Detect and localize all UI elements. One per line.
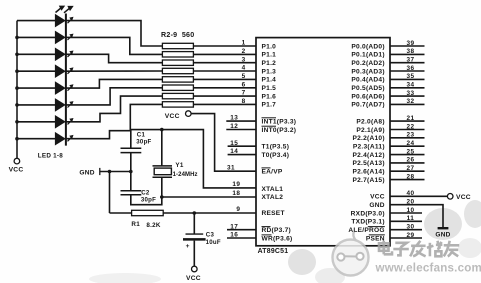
pin number 34 bbox=[406, 82, 414, 89]
svg-text:P1.4: P1.4 bbox=[262, 77, 277, 84]
pin number 11 bbox=[407, 215, 415, 222]
node bus junction 5 bbox=[15, 86, 19, 90]
svg-text:37: 37 bbox=[406, 57, 414, 64]
wire pin24 bbox=[390, 145, 425, 147]
power VCC left terminal bbox=[14, 158, 20, 164]
capacitor C1 bbox=[121, 148, 142, 152]
label 1-24MHz bbox=[173, 172, 198, 178]
pin label P2.3(A11) bbox=[353, 144, 385, 151]
power VCC mid terminal bbox=[186, 111, 192, 117]
svg-text:XTAL2: XTAL2 bbox=[262, 194, 284, 201]
pin label INT0(P3.2) bbox=[262, 126, 297, 134]
crystal Y1 bottom plate bbox=[153, 176, 173, 178]
svg-text:VCC: VCC bbox=[165, 113, 180, 120]
label C3 plus bbox=[186, 243, 190, 250]
pin number 14 bbox=[230, 148, 238, 155]
LED D5 bbox=[55, 81, 66, 95]
wire R9-pin8 bbox=[193, 103, 256, 105]
wire pin33 bbox=[390, 95, 425, 97]
pin number 39 bbox=[406, 40, 414, 47]
capacitor C3 plate1 bbox=[186, 233, 204, 235]
svg-text:20: 20 bbox=[406, 199, 414, 206]
pin label RXD(P3.0) bbox=[351, 210, 385, 217]
svg-text:+: + bbox=[186, 243, 190, 250]
wire pin34 bbox=[390, 87, 425, 89]
pin number 10 bbox=[406, 207, 414, 214]
svg-text:29: 29 bbox=[406, 232, 414, 239]
wire pin26 bbox=[390, 162, 425, 164]
pin number 27 bbox=[406, 165, 414, 172]
label C2 30pF bbox=[141, 196, 156, 203]
wire R6-pin5 bbox=[193, 78, 256, 80]
wire pin40 VCC bbox=[390, 195, 447, 197]
wire D1-R2 bbox=[66, 21, 162, 46]
pin label GND bbox=[369, 202, 384, 209]
pin label RD(P3.7) bbox=[262, 227, 291, 235]
svg-text:11: 11 bbox=[407, 215, 415, 222]
node crystal top junction bbox=[160, 128, 164, 132]
label LED 1-8 bbox=[38, 153, 63, 160]
capacitor C3 plate2 bbox=[183, 238, 206, 241]
pin number 17 bbox=[230, 223, 238, 230]
ground GND right symbol bbox=[438, 227, 449, 229]
pin number 12 bbox=[230, 123, 238, 130]
svg-text:25: 25 bbox=[406, 148, 414, 155]
svg-text:4: 4 bbox=[242, 65, 246, 72]
pin label P0.5(AD5) bbox=[351, 85, 384, 92]
pin number 30 bbox=[406, 224, 414, 231]
wire D3-R4 bbox=[66, 54, 162, 62]
resistor R6 bbox=[162, 77, 193, 82]
pin label T1(P3.5) bbox=[262, 144, 290, 151]
wire GND horizontal bbox=[100, 171, 131, 173]
svg-text:31: 31 bbox=[227, 164, 235, 171]
svg-text:VCC: VCC bbox=[370, 194, 385, 201]
svg-text:P1.5: P1.5 bbox=[262, 85, 277, 92]
LED D4 emission arrow bbox=[68, 67, 74, 73]
node bus junction 3 bbox=[15, 53, 19, 57]
wire XTAL1 net bbox=[131, 130, 256, 188]
node bus junction 7 bbox=[15, 120, 19, 124]
pin number 20 bbox=[406, 199, 414, 206]
wire crystal top lead bbox=[161, 130, 163, 166]
wire pin28 bbox=[390, 179, 425, 181]
wire LED7 anode bbox=[17, 121, 55, 123]
pin label P0.7(AD7) bbox=[351, 102, 384, 109]
wire GND-R1 vertical bbox=[109, 172, 111, 214]
pin label P0.6(AD6) bbox=[351, 93, 384, 100]
svg-text:GND: GND bbox=[369, 202, 384, 209]
label C3 bbox=[206, 232, 215, 239]
LED D2 emission arrow bbox=[68, 34, 74, 40]
pin label P2.2(A10) bbox=[352, 135, 384, 142]
label VCC right bbox=[456, 194, 471, 201]
pin label P1.3 bbox=[262, 68, 277, 75]
wire D4-R5 bbox=[66, 70, 162, 72]
power VCC right terminal bbox=[447, 194, 453, 200]
wire pin13 stub bbox=[226, 120, 256, 122]
svg-text:R2-9 560: R2-9 560 bbox=[161, 31, 194, 39]
pin number 23 bbox=[406, 132, 414, 139]
pin number 6 bbox=[242, 81, 246, 88]
pin label P2.7(A15) bbox=[352, 177, 384, 184]
wire LED8 anode bbox=[17, 138, 55, 140]
LED D7 bbox=[55, 115, 66, 129]
power VCC bottom terminal bbox=[192, 266, 198, 272]
pin number 22 bbox=[406, 123, 414, 130]
pin label P0.2(AD2) bbox=[351, 60, 384, 67]
wire pin17 stub bbox=[227, 229, 256, 231]
svg-text:P1.0: P1.0 bbox=[262, 43, 277, 50]
svg-text:VCC: VCC bbox=[186, 275, 201, 282]
wire pin21 bbox=[390, 120, 425, 122]
pin label P0.4(AD4) bbox=[351, 77, 384, 84]
svg-text:12: 12 bbox=[230, 123, 238, 130]
svg-text:P1.6: P1.6 bbox=[262, 93, 277, 100]
svg-text:P2.3(A11): P2.3(A11) bbox=[353, 144, 385, 151]
svg-text:T1(P3.5): T1(P3.5) bbox=[262, 144, 290, 151]
pin label P1.2 bbox=[262, 60, 277, 67]
wire R5-pin4 bbox=[193, 70, 256, 72]
pin number 31 bbox=[227, 164, 235, 171]
svg-text:P2.0(A8): P2.0(A8) bbox=[356, 118, 384, 125]
pin number 24 bbox=[406, 140, 414, 147]
svg-text:28: 28 bbox=[406, 173, 414, 180]
LED D8 bbox=[55, 132, 66, 146]
svg-text:3: 3 bbox=[242, 56, 246, 63]
pin number 18 bbox=[232, 190, 240, 197]
svg-text:P2.4(A12): P2.4(A12) bbox=[352, 152, 384, 159]
pin label P2.0(A8) bbox=[356, 118, 384, 125]
pin label P0.0(AD0) bbox=[351, 43, 384, 50]
svg-text:2: 2 bbox=[242, 48, 246, 55]
wire pin39 bbox=[390, 45, 425, 47]
svg-text:P1.3: P1.3 bbox=[262, 68, 277, 75]
wire LED3 anode bbox=[17, 53, 55, 55]
wire LED1 anode bbox=[17, 20, 55, 22]
wire pin12 stub bbox=[226, 129, 256, 131]
wire LED cathode column bbox=[65, 14, 67, 146]
label R2-9 560 bbox=[161, 31, 194, 39]
svg-text:P2.5(A13): P2.5(A13) bbox=[352, 160, 384, 167]
svg-text:P1.1: P1.1 bbox=[262, 52, 277, 59]
svg-text:GND: GND bbox=[435, 231, 450, 238]
svg-text:T0(P3.4): T0(P3.4) bbox=[262, 152, 290, 159]
label C2 bbox=[141, 189, 150, 196]
LED D3 bbox=[55, 48, 66, 62]
pin number 35 bbox=[406, 73, 414, 80]
pin number 1 bbox=[242, 40, 246, 47]
svg-text:27: 27 bbox=[406, 165, 414, 172]
crystal Y1 body bbox=[154, 168, 171, 175]
svg-text:38: 38 bbox=[406, 48, 414, 55]
svg-text:1: 1 bbox=[242, 40, 246, 47]
pin number 29 bbox=[406, 232, 414, 239]
svg-text:PSEN: PSEN bbox=[366, 235, 385, 242]
pin number 25 bbox=[406, 148, 414, 155]
svg-text:AT89C51: AT89C51 bbox=[258, 248, 289, 255]
pin number 16 bbox=[230, 232, 238, 239]
svg-text:40: 40 bbox=[406, 190, 414, 197]
svg-text:GND: GND bbox=[79, 170, 94, 177]
wire C3-VCC lead bbox=[193, 241, 195, 267]
pin label XTAL2 bbox=[262, 194, 284, 201]
svg-text:13: 13 bbox=[230, 115, 238, 122]
wire LED4 anode bbox=[17, 70, 55, 72]
svg-text:P0.4(AD4): P0.4(AD4) bbox=[351, 77, 384, 84]
svg-text:RESET: RESET bbox=[262, 210, 285, 217]
pin number 33 bbox=[406, 90, 414, 97]
svg-text:TXD(P3.1): TXD(P3.1) bbox=[351, 219, 384, 226]
pin label P2.6(A14) bbox=[352, 169, 384, 176]
svg-text:EA/VP: EA/VP bbox=[262, 169, 283, 176]
crystal Y1 top plate bbox=[153, 165, 173, 167]
wire LED5 anode bbox=[17, 87, 55, 89]
wire VCC bus vertical bbox=[16, 21, 18, 159]
node GND junction bbox=[108, 170, 112, 174]
wire pin23 bbox=[390, 137, 425, 139]
svg-text:P1.2: P1.2 bbox=[262, 60, 277, 67]
label Y1 bbox=[175, 162, 183, 169]
svg-text:www.elecfans.com: www.elecfans.com bbox=[375, 262, 481, 275]
svg-text:16: 16 bbox=[230, 232, 238, 239]
svg-text:5: 5 bbox=[242, 73, 246, 80]
pin label TXD(P3.1) bbox=[351, 219, 384, 226]
pin number 37 bbox=[406, 57, 414, 64]
svg-text:8.2K: 8.2K bbox=[146, 222, 161, 229]
svg-text:P0.2(AD2): P0.2(AD2) bbox=[351, 60, 384, 67]
pin number 2 bbox=[242, 48, 246, 55]
node crystal bottom junction bbox=[160, 195, 164, 199]
label AT89C51 bbox=[258, 248, 289, 255]
label R1 8.2K bbox=[146, 222, 161, 229]
label R1 bbox=[131, 221, 140, 228]
svg-text:P2.7(A15): P2.7(A15) bbox=[352, 177, 384, 184]
svg-text:P1.7: P1.7 bbox=[262, 102, 277, 109]
node bus junction 8 bbox=[15, 137, 19, 141]
svg-text:C3: C3 bbox=[206, 232, 215, 239]
pin label RESET bbox=[262, 210, 285, 217]
pin number 7 bbox=[242, 90, 246, 97]
pin number 5 bbox=[242, 73, 246, 80]
label VCC bottom bbox=[186, 275, 201, 282]
wire pin15 stub bbox=[228, 145, 256, 147]
svg-text:33: 33 bbox=[406, 90, 414, 97]
svg-text:21: 21 bbox=[406, 115, 414, 122]
label VCC left bbox=[9, 167, 24, 174]
pin label P1.0 bbox=[262, 43, 277, 50]
LED D7 emission arrow bbox=[68, 118, 74, 124]
ground GND tick bbox=[99, 168, 101, 175]
node C-string junction bbox=[129, 170, 133, 174]
wire pin36 bbox=[390, 70, 425, 72]
IC U1 AT89C51 box bbox=[256, 38, 390, 246]
node RESET junction bbox=[193, 211, 197, 215]
resistor R5 bbox=[162, 68, 193, 73]
label GND left bbox=[79, 170, 94, 177]
resistor R2 bbox=[162, 43, 193, 48]
node bus junction 4 bbox=[15, 69, 19, 73]
svg-text:C1: C1 bbox=[137, 132, 146, 139]
wire pin11 bbox=[390, 220, 422, 222]
svg-text:VCC: VCC bbox=[9, 167, 24, 174]
pin label VCC bbox=[370, 194, 385, 201]
wire LED2 anode bbox=[17, 36, 55, 38]
wire pin38 bbox=[390, 53, 425, 55]
pin number 36 bbox=[406, 65, 414, 72]
svg-text:32: 32 bbox=[406, 98, 414, 105]
svg-text:8: 8 bbox=[242, 98, 246, 105]
watermark url bbox=[375, 262, 481, 275]
svg-text:LED 1-8: LED 1-8 bbox=[38, 153, 63, 160]
resistor R1 bbox=[132, 210, 164, 215]
pin label XTAL1 bbox=[262, 186, 284, 193]
pin label P2.5(A13) bbox=[352, 160, 384, 167]
wire C1-GND bbox=[130, 153, 132, 172]
LED D1 bbox=[55, 14, 66, 28]
pin number 9 bbox=[236, 206, 240, 213]
svg-text:XTAL1: XTAL1 bbox=[262, 186, 284, 193]
pin number 13 bbox=[230, 115, 238, 122]
pin number 3 bbox=[242, 56, 246, 63]
wire crystal bottom lead bbox=[161, 177, 163, 197]
pin label PSEN bbox=[366, 235, 385, 242]
svg-text:P2.1(A9): P2.1(A9) bbox=[356, 127, 384, 134]
wire D8-R9 bbox=[66, 104, 162, 138]
svg-text:23: 23 bbox=[406, 132, 414, 139]
svg-text:P0.6(AD6): P0.6(AD6) bbox=[351, 93, 384, 100]
resistor R8 bbox=[162, 93, 193, 98]
svg-text:24: 24 bbox=[406, 140, 414, 147]
svg-text:39: 39 bbox=[406, 40, 414, 47]
pin label P0.1(AD1) bbox=[351, 52, 384, 59]
svg-text:17: 17 bbox=[230, 223, 238, 230]
svg-text:P0.1(AD1): P0.1(AD1) bbox=[351, 52, 384, 59]
pin label WR(P3.6) bbox=[262, 235, 293, 243]
wire pin27 bbox=[390, 170, 425, 172]
watermark logo bbox=[333, 232, 369, 276]
pin number 4 bbox=[242, 65, 246, 72]
svg-text:6: 6 bbox=[242, 81, 246, 88]
pin label P1.1 bbox=[262, 52, 277, 59]
pin label ALE/PROG bbox=[348, 227, 384, 234]
LED D6 bbox=[55, 98, 66, 112]
svg-text:RXD(P3.0): RXD(P3.0) bbox=[351, 210, 385, 217]
capacitor C2 bbox=[121, 191, 142, 195]
wire pin25 bbox=[390, 154, 425, 156]
wire pin35 bbox=[390, 78, 425, 80]
svg-text:INT0(P3.2): INT0(P3.2) bbox=[262, 127, 297, 134]
wire R7-pin6 bbox=[193, 87, 256, 89]
pin number 19 bbox=[232, 181, 240, 188]
svg-text:RD(P3.7): RD(P3.7) bbox=[262, 227, 291, 234]
svg-text:18: 18 bbox=[232, 190, 240, 197]
LED D5 emission arrow bbox=[68, 84, 74, 90]
pin number 21 bbox=[406, 115, 414, 122]
pin label P2.4(A12) bbox=[352, 152, 384, 159]
svg-text:P0.0(AD0): P0.0(AD0) bbox=[351, 43, 384, 50]
wire R1-RESET bbox=[163, 212, 256, 214]
wire C2-crystal bbox=[131, 195, 162, 205]
svg-text:14: 14 bbox=[230, 148, 238, 155]
wire D6-R7 bbox=[66, 88, 162, 105]
LED D2 bbox=[55, 31, 66, 45]
label C3 10uF bbox=[206, 239, 221, 246]
label GND right bbox=[435, 231, 450, 238]
pin label P1.4 bbox=[262, 77, 277, 84]
pin label T0(P3.4) bbox=[262, 152, 290, 159]
wire R2-pin1 bbox=[193, 45, 256, 47]
svg-text:P2.2(A10): P2.2(A10) bbox=[352, 135, 384, 142]
wire D2-R3 bbox=[66, 37, 162, 54]
svg-text:30pF: 30pF bbox=[136, 139, 151, 146]
svg-text:10uF: 10uF bbox=[206, 239, 221, 246]
node bus junction 2 bbox=[15, 36, 19, 40]
pin label P1.5 bbox=[262, 85, 277, 92]
wire C1 top lead bbox=[130, 130, 132, 148]
LED D1 emission arrow bbox=[68, 17, 74, 23]
svg-text:INT1(P3.3): INT1(P3.3) bbox=[262, 118, 297, 125]
label C1 30pF bbox=[136, 139, 151, 146]
label C1 bbox=[137, 132, 146, 139]
wire D7-R8 bbox=[66, 96, 162, 122]
pin number 38 bbox=[406, 48, 414, 55]
LED D8 emission arrow bbox=[68, 135, 74, 141]
wire R1 left lead bbox=[110, 212, 132, 214]
svg-text:P0.5(AD5): P0.5(AD5) bbox=[351, 85, 384, 92]
pin label INT1(P3.3) bbox=[262, 118, 297, 126]
svg-text:7: 7 bbox=[242, 90, 246, 97]
svg-text:9: 9 bbox=[236, 206, 240, 213]
svg-text:WR(P3.6): WR(P3.6) bbox=[262, 236, 293, 243]
wire pin10 bbox=[390, 212, 422, 214]
wire pin32 bbox=[390, 103, 425, 105]
pin number 26 bbox=[406, 157, 414, 164]
wire VCC-EA bbox=[191, 114, 256, 172]
LED D6 emission arrow bbox=[68, 101, 74, 107]
svg-text:P0.7(AD7): P0.7(AD7) bbox=[351, 102, 384, 109]
svg-text:30: 30 bbox=[406, 224, 414, 231]
power VCC mid label bbox=[165, 113, 180, 120]
node bus junction 6 bbox=[15, 103, 19, 107]
svg-text:35: 35 bbox=[406, 73, 414, 80]
wire GND-C2 lead bbox=[130, 172, 132, 191]
svg-text:P0.3(AD3): P0.3(AD3) bbox=[351, 68, 384, 75]
svg-text:C2: C2 bbox=[141, 189, 150, 196]
svg-text:VCC: VCC bbox=[456, 194, 471, 201]
wire D5-R6 bbox=[66, 79, 162, 88]
svg-text:10: 10 bbox=[406, 207, 414, 214]
pin label P0.3(AD3) bbox=[351, 68, 384, 75]
decor blobs bbox=[89, 200, 481, 283]
svg-text:P2.6(A14): P2.6(A14) bbox=[352, 169, 384, 176]
svg-text:15: 15 bbox=[230, 140, 238, 147]
pin number 8 bbox=[242, 98, 246, 105]
svg-text:22: 22 bbox=[406, 123, 414, 130]
resistor R7 bbox=[162, 85, 193, 90]
svg-text:R1: R1 bbox=[131, 221, 140, 228]
watermark text bbox=[379, 241, 459, 256]
pin label P1.6 bbox=[262, 93, 277, 100]
pin label P1.7 bbox=[262, 102, 277, 109]
wire pin37 bbox=[390, 62, 425, 64]
svg-text:19: 19 bbox=[232, 181, 240, 188]
pin label EA/VP bbox=[262, 168, 283, 176]
pin number 15 bbox=[230, 140, 238, 147]
pin number 32 bbox=[406, 98, 414, 105]
wire C3 top lead bbox=[193, 213, 195, 234]
wire pin16 stub bbox=[227, 237, 256, 239]
